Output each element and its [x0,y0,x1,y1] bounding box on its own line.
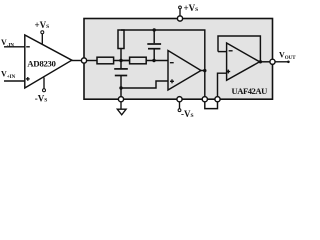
wire U1 output to package input pin [72,60,83,62]
op-amp U1 AD8230 triangle [25,35,72,88]
pin minus marker A2 [229,50,233,52]
svg-text:VOUT: VOUT [279,51,296,62]
wire C2 bottom to node B [153,49,155,61]
pin circle VOUT [270,59,275,64]
pin circle package input [81,58,86,63]
junction dot ground bus [119,86,122,89]
pin plus marker A2 [226,70,230,74]
pin minus marker A1 [170,62,174,64]
op-amp A1 triangle [168,51,201,91]
wire R1 to node A [114,60,130,62]
svg-text:+VS: +VS [184,3,199,13]
pin circle jumper left [202,97,207,102]
svg-text:-VS: -VS [181,109,194,119]
svg-text:V+IN: V+IN [1,69,16,80]
wire feedback into A2 minus [218,51,227,53]
wire C2 top to feedback bus [153,30,155,43]
node VOUT end dot [287,61,290,64]
ground lead below package [120,102,122,109]
pin plus marker A1 [170,79,174,83]
wire V-IN input [4,46,25,48]
wire A1 output [201,70,205,72]
pin plus marker U1 [26,77,30,81]
svg-text:UAF42AU: UAF42AU [232,86,268,96]
svg-text:AD8230: AD8230 [27,59,56,69]
wire VOUT external stub [275,61,288,63]
svg-text:V-IN: V-IN [1,38,14,49]
power +Vs terminal top of package [179,3,199,16]
junction dot A1 output [203,69,206,72]
wire ground bus to A1 plus input [121,81,168,88]
wire A2 output to VOUT pin [260,61,270,63]
wire input pin to R1 [87,60,97,62]
pin minus marker U1 [26,46,30,48]
wire R3 to node B to A1 minus input [146,60,168,62]
wire jumper between pins [205,102,218,109]
wire A2 plus input from pin [218,73,227,97]
wire C1 to ground bus [120,76,122,97]
node B junction dot [152,59,155,62]
resistor R1 [97,57,114,64]
wire V+IN input [4,80,25,82]
pin circle +Vs package [177,16,182,21]
resistor R3 [130,57,147,64]
node A junction dot [119,59,122,62]
wire R2 bottom to node A to C1 [120,49,122,69]
power -Vs terminal below U1 [35,78,48,104]
resistor R2 vertical [118,30,124,49]
svg-text:+VS: +VS [35,20,50,30]
op-amp A2 triangle [227,43,260,80]
svg-text:-VS: -VS [35,93,48,103]
wire A2 feedback loop [218,36,260,62]
pin circle ground [118,97,123,102]
junction dot C2 top [153,28,156,31]
IC package UAF42 body [84,19,273,100]
ground symbol [117,109,126,115]
capacitor C1 [114,69,128,76]
power +Vs terminal above U1 [35,20,50,44]
wire feedback top bus [121,30,205,97]
capacitor C2 [147,44,161,49]
pin circle -Vs package [177,97,182,102]
junction dot A2 output [259,60,262,63]
power -Vs terminal bottom of package [178,102,193,119]
wire node A to R3 [121,60,130,62]
pin circle jumper right [215,97,220,102]
